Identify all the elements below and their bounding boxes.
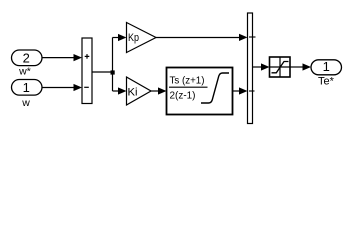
junction dot [111, 70, 115, 74]
wire branch to Ki [113, 87, 127, 94]
svg-text:2(z-1): 2(z-1) [170, 89, 196, 101]
svg-text:1: 1 [23, 80, 30, 95]
wire branch vertical [112, 38, 114, 92]
saturation block [270, 57, 291, 77]
wire saturation to outport [290, 63, 311, 70]
svg-text:2: 2 [23, 50, 30, 65]
wire branch to Kp [113, 34, 127, 41]
sum2 tall block [248, 13, 256, 124]
wire integrator to mux [233, 87, 248, 94]
gain Ki [127, 77, 152, 105]
svg-text:1: 1 [323, 59, 330, 74]
svg-text:w: w [21, 97, 30, 109]
wire sum output to branch [92, 71, 113, 73]
wire Ki to integrator [151, 87, 167, 94]
discrete-time integrator block [167, 68, 233, 115]
wire Kp to mux [156, 34, 248, 41]
svg-text:Kp: Kp [128, 32, 139, 44]
gain Kp [127, 23, 157, 53]
wire inport2 to sum [42, 54, 82, 61]
wire sum2 to saturation [253, 63, 270, 70]
svg-text:Te*: Te* [318, 76, 335, 88]
inport 2 (w*) [12, 50, 43, 66]
sum block [82, 38, 92, 104]
inport 1 (w) [12, 80, 43, 96]
outport 1 (Te*) [311, 59, 342, 75]
svg-text:w*: w* [18, 66, 31, 78]
wire inport1 to sum [42, 84, 82, 91]
svg-text:Ki: Ki [128, 87, 138, 99]
svg-text:Ts (z+1): Ts (z+1) [170, 74, 205, 86]
